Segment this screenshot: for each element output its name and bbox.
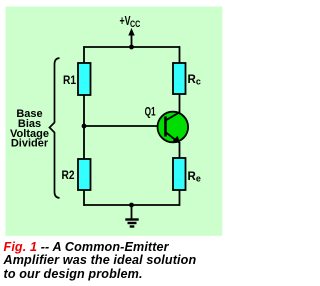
resistor Rc: [173, 63, 186, 94]
label Base Bias Voltage Divider: [10, 108, 49, 150]
wire right rail lower: [179, 189, 181, 206]
svg-text:Q1: Q1: [145, 107, 156, 119]
wire right rail upper: [179, 46, 181, 64]
wire left rail upper: [83, 46, 85, 64]
svg-text:R1: R1: [63, 75, 77, 87]
wire left rail lower: [83, 189, 85, 206]
schematic background panel: [6, 7, 223, 236]
caption figure text: [4, 241, 230, 281]
resistor R2: [78, 159, 91, 190]
wire base: [84, 125, 165, 127]
node bottom junction: [129, 203, 134, 208]
wire emitter stub: [179, 142, 181, 159]
resistor Re: [173, 158, 186, 190]
svg-text:Rc: Rc: [188, 74, 201, 87]
ground: [125, 205, 138, 227]
Vcc arrowhead: [128, 28, 134, 36]
wire left rail middle: [83, 94, 85, 160]
svg-text:CC: CC: [130, 19, 140, 30]
svg-text:Divider: Divider: [11, 138, 49, 150]
wire Vcc lead: [131, 33, 133, 47]
transistor Q1: [158, 112, 189, 144]
brace for divider group: [50, 58, 60, 198]
svg-text:R2: R2: [62, 170, 75, 182]
wire bottom rail: [84, 204, 180, 206]
resistor R1: [78, 63, 91, 95]
svg-text:Re: Re: [188, 171, 201, 184]
node base junction: [82, 124, 87, 129]
wire collector stub: [179, 93, 181, 113]
wire top rail: [84, 46, 180, 48]
node top junction: [129, 45, 134, 50]
